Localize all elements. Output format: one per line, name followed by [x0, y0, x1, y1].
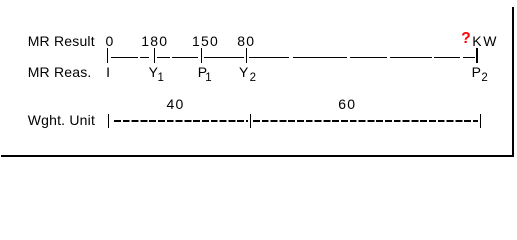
- timeline dash 4: [172, 57, 198, 58]
- timeline tick Y1: [154, 48, 155, 63]
- weight 40: [167, 97, 185, 111]
- value 0: [106, 34, 114, 48]
- timeline dash 9: [390, 57, 432, 58]
- value 80: [237, 34, 255, 48]
- weight pipe 2: [250, 114, 251, 128]
- timeline dash 5: [204, 57, 244, 58]
- reason Y1: [149, 65, 164, 85]
- weight 60: [338, 97, 356, 111]
- value 180: [141, 34, 168, 48]
- timeline tick Y2: [246, 48, 247, 63]
- reason P1: [198, 65, 212, 85]
- timeline dash 2: [140, 57, 149, 58]
- timeline dash 7: [293, 57, 347, 58]
- frame bottom border: [1, 155, 514, 156]
- timeline dash 6: [249, 57, 289, 58]
- reason Y2: [239, 65, 256, 85]
- label Wght. Unit: [28, 113, 95, 127]
- timeline dash 11: [463, 57, 476, 58]
- weight pipe 3: [480, 114, 481, 128]
- weight dashed segment 40: [114, 120, 248, 121]
- timeline dash 10: [434, 57, 460, 58]
- unknown value ?: [461, 32, 470, 46]
- timeline tick P2: [476, 48, 478, 63]
- label MR Result: [28, 34, 95, 48]
- timeline tick I: [107, 48, 108, 63]
- reason P2: [472, 65, 488, 85]
- timeline dash 1: [111, 57, 138, 58]
- timeline dash 8: [350, 57, 387, 58]
- value 150: [192, 34, 219, 48]
- timeline dash 3: [157, 57, 170, 58]
- weight pipe 1: [108, 114, 109, 128]
- weight dashed segment 60: [253, 120, 478, 121]
- frame right border: [512, 7, 514, 157]
- label MR Reas.: [28, 65, 92, 79]
- unit KW: [472, 34, 498, 48]
- reason I: [106, 65, 110, 79]
- timeline tick P1: [201, 48, 202, 63]
